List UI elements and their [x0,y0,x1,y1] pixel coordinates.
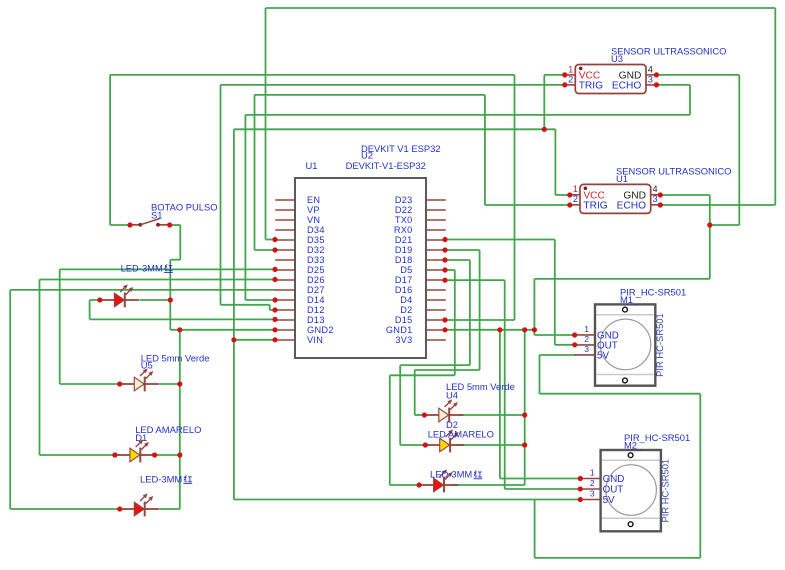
wire D5 step horiz [390,374,455,376]
junction LED6 anode [417,482,422,487]
wire M1 5V vert [539,355,541,394]
wire M2 5V horiz y499 [234,499,580,501]
junction 5V feed [542,127,547,132]
wire S1 left wire [110,224,130,226]
op-amp U2 DEVKIT-V1-ESP32 body [295,178,426,358]
wire GND M2 vert [499,330,501,479]
wire U1 ECHO horiz [660,204,775,206]
U1 pin1 marker [584,187,588,191]
svg-text:M1_: M1_ [620,294,639,305]
wire LED3 anode horiz [10,508,120,510]
svg-text:GND1: GND1 [386,325,413,335]
svg-text:D1: D1 [135,432,147,443]
junction GND1-M2 [497,327,502,332]
U3 pin 3 stub [646,84,656,86]
svg-text:D4: D4 [400,295,412,305]
svg-text:3: 3 [648,74,653,84]
U2 pin D16 stub [426,289,446,291]
M2 pin 1 stub [580,478,600,480]
wire S1 chain vert x170 [169,260,171,330]
wire VIN to pin [234,339,276,341]
U2 pin D25 stub [275,269,295,271]
wire D12 jog vert [269,305,271,310]
wire D1 cathode horiz [155,454,180,456]
wire GND link horiz y225 [710,224,740,226]
junction S1 left [127,222,132,227]
svg-text:LED-3MM: LED-3MM [430,469,472,480]
M1 bottom screw hole [623,378,628,383]
U1 pin 4 stub [651,194,661,196]
wire LED1 cathode horiz [140,299,171,301]
wire U1 GND vert [709,195,711,279]
svg-text:3: 3 [590,489,595,499]
junction D14 pin [272,297,277,302]
wire D2 anode horiz [400,444,425,446]
junction U3 ECHO pin [654,82,659,87]
wire D15 horiz [445,319,515,321]
wire D12 vert [220,85,222,305]
U2 pin D17 stub [426,279,446,281]
wire GND up vert x534 [533,279,535,335]
U3 pin 1 stub [565,74,576,76]
junction D1 anode [112,452,117,457]
wire D19 vert [479,250,481,370]
junction D13 pin [272,317,277,322]
M1 pin 2 stub [575,344,595,346]
U2 pin D23 stub [426,199,446,201]
svg-text:D23: D23 [395,195,413,205]
svg-text:GND: GND [603,474,625,485]
junction U1 ECHO pin [658,202,663,207]
svg-text:5V: 5V [597,351,609,362]
sensor M1 PIR HC-SR501 body [595,304,655,385]
svg-text:VN: VN [307,215,320,225]
svg-text:TX0: TX0 [395,215,413,225]
junction VIN 5V [231,337,236,342]
U1 pin 3 stub [651,204,661,206]
junction LED1 anode [97,297,102,302]
svg-text:D34: D34 [307,225,325,235]
wire D19 down vert [414,370,416,415]
junction GND1 pin [442,327,447,332]
wire D5 down vert [389,375,391,485]
wire U3 VCC stub horiz [544,74,565,76]
svg-text:D12: D12 [307,305,325,315]
wire D18 step horiz [400,364,470,366]
svg-text:3V3: 3V3 [395,335,412,345]
junction D1 cathode [177,452,182,457]
junction D17 pin [442,278,447,283]
wire top D35-U1ECHO horiz [266,7,776,9]
wire D13 horiz [90,318,276,320]
svg-text:2: 2 [590,478,595,488]
svg-text:VIN: VIN [307,335,323,345]
svg-text:2: 2 [568,74,573,84]
M2 lens circle [606,465,657,516]
svg-text:D2: D2 [400,305,412,315]
junction D32 pin [272,247,277,252]
junction U4 anode [422,412,427,417]
U3 pin1 marker [579,67,583,71]
wire U3 ECHO vert [689,85,691,115]
junction U3 GND pin [654,72,659,77]
svg-text:U4: U4 [446,389,458,400]
svg-text:D33: D33 [307,255,325,265]
svg-text:D19: D19 [395,245,413,255]
junction D15 pin [442,317,447,322]
sensor U1 SENSOR ULTRASSONICO body [580,184,651,213]
wire D27 horiz [10,289,276,291]
svg-text:U2: U2 [361,150,373,161]
wire D12 to pin [270,309,276,311]
U2 pin D18 stub [426,259,446,261]
wire U3 GND vert [738,75,740,225]
junction D1 cathode lead [152,452,157,457]
U2 pin 3V3 stub [426,339,446,341]
junction D2 anode [423,442,428,447]
wire D14 vert [244,115,246,300]
wire LED1 anode horiz [90,299,100,301]
svg-text:2: 2 [573,194,578,204]
U2 pin D35 stub [275,239,295,241]
wire D35 to pin [266,239,277,241]
wire D2 cathode horiz [456,444,525,446]
junction GND1-M1 [532,327,537,332]
U2 pin GND1 stub [426,329,446,331]
svg-text:D13: D13 [307,315,325,325]
wire D18 down vert [399,365,401,445]
wire D26 vert [39,280,41,456]
LED D1 amarelo [115,439,155,462]
junction GND link [707,222,712,227]
wire S1 jog vert [179,225,181,260]
wire M1 5V long horiz y394 [540,393,701,395]
LED red 3mm bottom-left [120,493,159,516]
svg-text:PIR HC-SR501: PIR HC-SR501 [654,313,665,377]
U2 pin RX0 stub [426,229,446,231]
M1 inner top line [597,314,654,316]
LED D2 amarelo [425,429,464,452]
wire S1 net right vert to D15 [514,75,516,320]
wire U5 anode horiz [60,383,120,385]
M1 pin 1 stub [575,334,595,336]
wire M1 5V horiz [540,354,577,356]
wire D18 vert [469,260,471,365]
wire U1 TRIG vert [484,95,486,205]
wire D32 horiz y95 [255,94,485,96]
switch S1 BOTAO PULSO [130,219,170,227]
M2 bottom screw hole [628,522,633,527]
svg-text:D35: D35 [307,235,325,245]
M1 lens circle [600,319,651,370]
svg-text:D5: D5 [400,265,412,275]
svg-text:3: 3 [653,194,658,204]
junction D35 pin [272,237,277,242]
svg-text:OUT: OUT [603,485,624,496]
junction U5 anode [117,381,122,386]
wire S1 net left vert [109,75,111,225]
wire S1 jog horiz [170,259,180,261]
svg-text:4: 4 [648,64,653,74]
svg-text:U5: U5 [141,359,153,370]
svg-text:ECHO: ECHO [617,201,647,212]
wire top right vert [774,8,776,205]
U2 pin D2 stub [426,309,446,311]
wire 5V mid vert [534,500,536,558]
junction S1 right [167,222,172,227]
junction U3 TRIG pin [562,82,567,87]
wire D17 horiz [445,279,505,281]
M2 pin 2 stub [580,488,600,490]
wire GND cross horiz y279 [534,278,709,280]
junction VIN pin [272,337,277,342]
junction D25 pin [272,267,277,272]
wire D27 vert [9,290,11,509]
svg-text:EN: EN [307,195,320,205]
wire 5V right vert [699,394,701,558]
wire U1 GND horiz [660,194,710,196]
wire D5 vert [454,270,456,375]
svg-text:PIR HC-SR501: PIR HC-SR501 [659,459,670,523]
svg-text:U1: U1 [306,160,318,171]
wire D19 horiz [445,249,480,251]
wire U4 cathode horiz [460,414,525,416]
junction LED1 cathode [168,297,173,302]
wire U3 ECHO horiz y115 [245,114,690,116]
svg-text:RX0: RX0 [394,225,413,235]
wire GND to M1GND horiz [534,334,575,336]
U2 pin D5 stub [426,269,446,271]
wire M2 OUT horiz [505,488,581,490]
svg-text:D18: D18 [395,255,413,265]
U2 pin D15 stub [426,319,446,321]
sensor U3 SENSOR ULTRASSONICO body [575,65,646,94]
junction D2 cathode [522,442,527,447]
svg-text:D21: D21 [395,235,413,245]
svg-text:D32: D32 [307,245,325,255]
junction GND2 chain [177,327,182,332]
wire LED3 cathode horiz [159,508,180,510]
wire U4 anode horiz [415,414,425,416]
wire D26 horiz [40,279,277,281]
junction GND1-mid [522,327,527,332]
svg-text:D25: D25 [307,265,325,275]
wire GND2 chain vert x180 [179,330,181,509]
LED red 3mm bottom-mid [419,469,458,492]
svg-text:S1: S1 [151,209,162,220]
svg-text:1: 1 [573,184,578,194]
svg-text:ECHO: ECHO [612,81,642,92]
junction D21 pin [442,237,447,242]
junction U1 GND pin [658,192,663,197]
junction M1 OUT pin [572,342,577,347]
wire D21 horiz [445,239,555,241]
wire U3 TRIG horiz y85 [221,84,565,86]
junction U1 VCC pin [567,192,572,197]
svg-text:D15: D15 [395,315,413,325]
wire D32 vert [254,95,256,250]
M2 pin 3 stub [580,499,600,501]
wire U3 VCC vert [543,75,545,129]
U1 pin 2 stub [570,204,581,206]
wire M2 GND horiz [500,478,580,480]
wire D19 step horiz [415,369,480,371]
wire D32 to pin [255,249,277,251]
U2 pin VN stub [275,219,295,221]
LED U5 5mm verde [120,368,159,391]
M2 inner top line [602,459,659,461]
wire D35 vert [265,8,267,240]
wire 5V bottom horiz [535,557,701,559]
U2 pin D26 stub [275,279,295,281]
U2 pin D27 stub [275,289,295,291]
junction U1 TRIG pin [567,202,572,207]
U2 pin VP stub [275,209,295,211]
svg-text:DEVKIT-V1-ESP32: DEVKIT-V1-ESP32 [346,160,426,171]
sensor M2 PIR HC-SR501 body [601,450,661,531]
M1 pin 3 stub [575,354,595,356]
U2 pin D19 stub [426,249,446,251]
wire U1 TRIG horiz [485,204,570,206]
svg-text:D27: D27 [307,285,325,295]
svg-text:D14: D14 [307,295,325,305]
U2 pin GND2 stub [275,329,295,331]
junction GND2 pin [272,327,277,332]
svg-text:5V: 5V [603,495,615,506]
wire VIN vert [233,129,235,499]
M2 inner bottom line [602,517,659,519]
wire 5V feed horiz y129 [234,128,556,130]
svg-text:SENSOR ULTRASSONICO: SENSOR ULTRASSONICO [611,46,726,57]
wire D25 vert [59,269,61,384]
U2 pin VIN stub [275,339,295,341]
wire D18 horiz [445,259,470,261]
wire U1 VCC stub horiz [555,194,569,196]
U2 pin D32 stub [275,249,295,251]
wire LED1 U vert [89,300,91,319]
wire S1 right wire [170,224,181,226]
svg-text:4: 4 [653,184,658,194]
junction LED3 anode [117,506,122,511]
junction D12 pin [272,307,277,312]
wire U3 GND horiz [657,74,740,76]
U2 pin D22 stub [426,209,446,211]
junction D19 pin [442,247,447,252]
junction U3 VCC pin [562,72,567,77]
svg-text:SENSOR ULTRASSONICO: SENSOR ULTRASSONICO [616,166,731,177]
U2 pin D33 stub [275,259,295,261]
svg-text:M2_: M2_ [624,440,643,451]
junction M2 OUT pin [578,486,583,491]
wire D17 vert [504,280,506,489]
U2 pin D12 stub [275,309,295,311]
M2 top screw hole [628,453,633,458]
svg-text:U1: U1 [616,173,628,184]
svg-text:1: 1 [590,468,595,478]
U2 pin D13 stub [275,319,295,321]
junction D26 pin [272,277,277,282]
junction M1 GND pin [572,332,577,337]
junction D5 pin [442,267,447,272]
U2 pin D4 stub [426,299,446,301]
LED U4 5mm verde [424,399,463,422]
wire GND1 horiz [445,329,535,331]
LED D? red 3mm top-left [100,284,139,307]
wire LED6 anode horiz [390,484,419,486]
svg-text:TRIG: TRIG [583,201,607,212]
wire D25 horiz [60,268,276,270]
wire D12 jog horiz [221,304,270,306]
junction D18 pin [442,257,447,262]
wire D21 vert [554,240,556,345]
svg-text:D26: D26 [307,275,325,285]
svg-text:GND2: GND2 [307,325,334,335]
wire GND2 horiz [170,329,276,331]
junction M2 GND pin [578,476,583,481]
U2 pin EN stub [275,199,295,201]
junction U5 cathode [177,381,182,386]
wire U1 VCC vert [554,129,556,195]
svg-text:2: 2 [584,334,589,344]
svg-text:U3: U3 [611,53,623,64]
U3 pin 4 stub [646,74,656,76]
wire D14 to pin [245,299,276,301]
U2 pin D21 stub [426,239,446,241]
U3 pin 2 stub [565,84,576,86]
wire U3 ECHO stub [657,84,691,86]
M1 top screw hole [623,307,628,312]
wire GND mid vert x525 [524,330,526,485]
svg-text:LED-3MM: LED-3MM [121,262,163,273]
U2 pin D14 stub [275,299,295,301]
wire LED6 cathode horiz [452,484,525,486]
svg-text:1: 1 [568,64,573,74]
svg-text:1: 1 [584,324,589,334]
wire U5 cathode horiz [159,383,180,385]
svg-text:LED AMARELO: LED AMARELO [428,428,494,439]
svg-text:TRIG: TRIG [579,81,603,92]
M1 inner bottom line [597,374,654,376]
svg-text:LED-3MM: LED-3MM [140,473,182,484]
junction U4 cathode [522,412,527,417]
svg-text:D16: D16 [395,285,413,295]
wire M1 OUT horiz [555,344,575,346]
U1 pin 1 stub [570,194,581,196]
U2 pin D34 stub [275,229,295,231]
svg-text:3: 3 [584,344,589,354]
svg-text:VP: VP [307,205,320,215]
U2 pin TX0 stub [426,219,446,221]
svg-text:D22: D22 [395,205,413,215]
svg-text:D17: D17 [395,275,413,285]
junction M2 5V pin [578,497,583,502]
wire D1 anode horiz [40,454,115,456]
wire S1 net horiz y75 [110,74,514,76]
wire D5 horiz [445,269,455,271]
